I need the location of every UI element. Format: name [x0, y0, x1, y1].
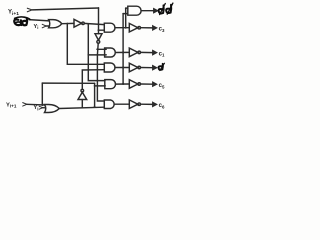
svg-text:Yi: Yi	[34, 105, 39, 111]
svg-text:c6: c6	[159, 103, 165, 109]
svg-text:c1: c1	[159, 51, 165, 57]
svg-text:c3: c3	[159, 27, 165, 33]
svg-text:Yi: Yi	[34, 24, 39, 30]
svg-text:Yi+1: Yi+1	[6, 102, 17, 108]
svg-text:c5: c5	[159, 83, 165, 89]
